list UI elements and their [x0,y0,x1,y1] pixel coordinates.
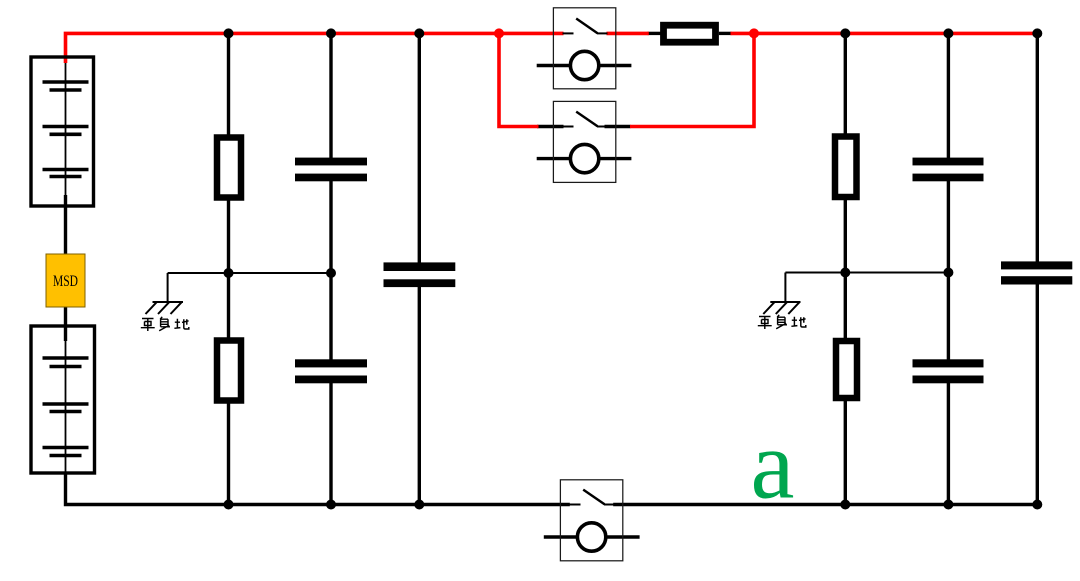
svg-text:a: a [751,411,795,520]
svg-text:MSD: MSD [53,273,78,290]
